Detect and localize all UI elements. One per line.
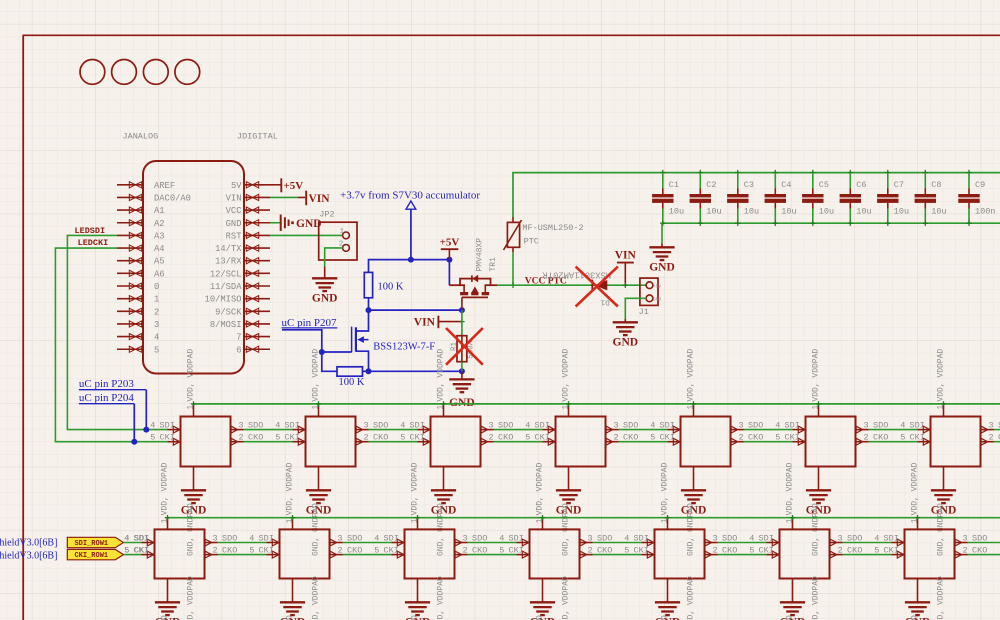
svg-text:9/SCK: 9/SCK <box>215 307 242 317</box>
svg-text:VDD, VDDPAD: VDD, VDDPAD <box>311 349 320 402</box>
svg-text:1: 1 <box>910 518 919 523</box>
svg-text:TR1: TR1 <box>489 257 498 272</box>
cross-out X over D1 <box>576 267 618 307</box>
wire VIN pin to VIN supply <box>270 196 298 198</box>
wire J1 pin2 to ground <box>625 298 646 319</box>
svg-text:PTC: PTC <box>524 237 539 247</box>
IC U16 LED driver row1 col6 <box>775 349 888 467</box>
U1 right pin RST <box>244 234 270 236</box>
svg-text:C1: C1 <box>669 180 679 190</box>
wire VDD bus row2 <box>168 517 1000 519</box>
svg-text:CKI: CKI <box>910 433 925 443</box>
svg-text:5: 5 <box>775 433 780 443</box>
svg-text:5: 5 <box>275 433 280 443</box>
svg-text:DAC0/A0: DAC0/A0 <box>154 193 191 203</box>
IC U23 LED driver row2 col3 <box>374 462 487 578</box>
svg-text:GND, GNDPAD: GND, GNDPAD <box>535 615 544 620</box>
svg-text:BSS123W-7-F: BSS123W-7-F <box>373 342 435 353</box>
wire RST to JP2 pin 1 <box>270 234 343 236</box>
svg-text:SDI: SDI <box>384 534 399 544</box>
wire 5V pin to +5V supply <box>270 184 281 186</box>
svg-text:0: 0 <box>154 282 159 292</box>
junction +5V node <box>446 257 452 263</box>
transistor Q1 BSS123W-7-F <box>352 310 369 371</box>
svg-text:3: 3 <box>239 421 244 431</box>
wire SDO/CKO U25 to U26 <box>718 542 767 544</box>
ground symbol below U11 <box>181 467 207 557</box>
U1 left pin A3 <box>117 234 143 236</box>
svg-text:1: 1 <box>311 405 320 410</box>
junction TR1 gate node <box>459 307 465 313</box>
svg-text:C3: C3 <box>744 180 754 190</box>
ground symbol below U24 <box>530 579 556 620</box>
svg-text:SDI: SDI <box>660 421 675 431</box>
svg-text:1: 1 <box>436 405 445 410</box>
svg-text:VDD, VDDPAD: VDD, VDDPAD <box>186 576 195 620</box>
wire SDO/CKO U15 to U16 <box>744 429 793 431</box>
svg-text:GND, GNDPAD: GND, GNDPAD <box>160 615 169 620</box>
svg-text:4: 4 <box>249 534 254 544</box>
wire row2 outputs to edge <box>968 542 1000 544</box>
svg-text:VDD, VDDPAD: VDD, VDDPAD <box>285 462 294 515</box>
svg-text:VDD, VDDPAD: VDD, VDDPAD <box>811 576 820 620</box>
junction VIN/VCC wire <box>623 283 628 288</box>
capacitor C3 10u <box>727 170 759 226</box>
U1 right pin 6 <box>244 348 270 350</box>
U1 right pin 13/RX <box>244 260 270 262</box>
svg-text:5: 5 <box>150 433 155 443</box>
svg-text:SDI: SDI <box>259 534 274 544</box>
svg-text:2: 2 <box>588 546 593 556</box>
svg-text:AREF: AREF <box>154 181 175 191</box>
svg-text:ShieldV3.0[6B]: ShieldV3.0[6B] <box>0 537 57 548</box>
svg-text:C9: C9 <box>975 180 985 190</box>
svg-text:1: 1 <box>410 518 419 523</box>
svg-text:VDD, VDDPAD: VDD, VDDPAD <box>686 349 695 402</box>
svg-text:5: 5 <box>499 546 504 556</box>
svg-text:4: 4 <box>874 534 879 544</box>
svg-text:GND, GNDPAD: GND, GNDPAD <box>785 615 794 620</box>
wire 100K to R1 bottom node <box>363 370 462 372</box>
wire GND pin to GND symbol <box>270 222 280 224</box>
svg-text:7: 7 <box>236 333 241 343</box>
svg-text:CKI: CKI <box>134 546 149 556</box>
svg-text:LEDCKI: LEDCKI <box>78 238 109 248</box>
svg-text:10u: 10u <box>856 207 871 217</box>
svg-text:1: 1 <box>340 228 345 236</box>
svg-text:2: 2 <box>963 546 968 556</box>
svg-text:CKI: CKI <box>160 433 175 443</box>
mounting hole circle 4 <box>175 60 200 85</box>
svg-text:C5: C5 <box>819 180 829 190</box>
svg-text:SDI: SDI <box>910 421 925 431</box>
wire TR1 drain to R1 <box>461 310 463 336</box>
svg-text:VIN: VIN <box>414 316 436 328</box>
IC U25 LED driver row2 col5 <box>624 462 737 578</box>
svg-text:VIN: VIN <box>615 250 637 262</box>
svg-text:VDD, VDDPAD: VDD, VDDPAD <box>436 349 445 402</box>
svg-text:1: 1 <box>660 518 669 523</box>
svg-text:GND: GND <box>653 296 661 302</box>
svg-text:uC pin P203: uC pin P203 <box>79 378 135 390</box>
svg-text:5: 5 <box>124 546 129 556</box>
wire C1 to ground <box>661 223 663 243</box>
svg-text:5: 5 <box>249 546 254 556</box>
svg-text:A2: A2 <box>154 219 165 229</box>
svg-text:RST: RST <box>226 231 242 241</box>
svg-text:JANALOG: JANALOG <box>123 132 159 142</box>
svg-text:SDI: SDI <box>160 421 175 431</box>
svg-text:GND: GND <box>296 218 322 230</box>
svg-text:3: 3 <box>739 421 744 431</box>
flag SDI_ROW1 <box>67 537 123 547</box>
svg-text:SDI: SDI <box>785 421 800 431</box>
ground symbol below U21 <box>155 579 181 620</box>
capacitor C5 10u <box>802 170 834 226</box>
svg-text:CKI: CKI <box>535 433 550 443</box>
svg-text:VDD, VDDPAD: VDD, VDDPAD <box>686 576 695 620</box>
svg-text:VIN: VIN <box>226 193 242 203</box>
junction VIN/R1 <box>459 319 464 324</box>
svg-text:R1: R1 <box>451 341 459 351</box>
svg-text:3: 3 <box>364 421 369 431</box>
svg-text:CKI: CKI <box>384 546 399 556</box>
svg-text:5: 5 <box>525 433 530 443</box>
svg-text:GND: GND <box>226 219 242 229</box>
svg-text:5: 5 <box>374 546 379 556</box>
U1 right pin 11/SDA <box>244 285 270 287</box>
svg-text:MF-USML250-2: MF-USML250-2 <box>522 223 583 233</box>
svg-text:11/SDA: 11/SDA <box>210 282 242 292</box>
svg-text:100 K: 100 K <box>378 281 404 292</box>
svg-text:GND, GNDPAD: GND, GNDPAD <box>285 615 294 620</box>
svg-text:1: 1 <box>154 295 159 305</box>
svg-text:3: 3 <box>838 534 843 544</box>
diode D1 MSX3011AM20TR (crossed out) <box>591 280 593 291</box>
svg-text:2: 2 <box>338 546 343 556</box>
svg-text:SDI: SDI <box>134 534 149 544</box>
U1 right pin 7 <box>244 336 270 338</box>
svg-text:3: 3 <box>614 421 619 431</box>
svg-text:10/MISO: 10/MISO <box>205 295 242 305</box>
svg-text:5: 5 <box>749 546 754 556</box>
capacitor C4 10u <box>765 170 797 226</box>
svg-text:GND: GND <box>613 337 639 349</box>
wire SDO/CKO U23 to U24 <box>468 542 517 544</box>
ground symbol below JP2 <box>312 278 337 291</box>
U1 left pin A6 <box>117 272 143 274</box>
svg-text:3: 3 <box>489 421 494 431</box>
junction P204/CKI <box>131 439 137 445</box>
IC U17 LED driver row1 col7 <box>900 349 1000 467</box>
svg-text:VDD, VDDPAD: VDD, VDDPAD <box>160 462 169 515</box>
svg-text:CKI: CKI <box>785 433 800 443</box>
IC U21 LED driver row2 col1 <box>124 462 237 578</box>
svg-text:10u: 10u <box>931 207 946 217</box>
capacitor C8 10u <box>915 170 947 226</box>
svg-text:C7: C7 <box>894 180 904 190</box>
svg-text:5: 5 <box>154 345 159 355</box>
svg-text:6: 6 <box>236 345 241 355</box>
U1 right pin 12/SCL <box>244 272 270 274</box>
ground symbol below R1 <box>449 379 474 392</box>
wire SDO/CKO U16 to U17 <box>869 429 918 431</box>
ground symbol below U12 <box>306 467 332 557</box>
svg-text:SDI: SDI <box>509 534 524 544</box>
IC U22 LED driver row2 col2 <box>249 462 362 578</box>
wire SDO/CKO U21 to U22 <box>218 542 267 544</box>
svg-text:VDD, VDDPAD: VDD, VDDPAD <box>561 349 570 402</box>
capacitor C1 10u <box>652 170 684 226</box>
svg-text:CKI: CKI <box>259 546 274 556</box>
U1 left pin A5 <box>117 260 143 262</box>
junction P207 gate node <box>319 349 325 355</box>
ground symbol below U15 <box>681 467 707 557</box>
svg-text:2: 2 <box>989 433 994 443</box>
wire SDO/CKO U12 to U13 <box>369 429 418 431</box>
svg-text:13/RX: 13/RX <box>215 257 242 267</box>
U1 right pin 5V <box>244 184 270 186</box>
U1 left pin AREF <box>117 184 143 186</box>
svg-text:4: 4 <box>749 534 754 544</box>
svg-text:CKI: CKI <box>410 433 425 443</box>
supply +3.7v triangle symbol <box>406 201 416 209</box>
U1 right pin 8/MOSI <box>244 323 270 325</box>
svg-text:5: 5 <box>650 433 655 443</box>
svg-text:VDD, VDDPAD: VDD, VDDPAD <box>561 576 570 620</box>
svg-text:VDD, VDDPAD: VDD, VDDPAD <box>910 462 919 515</box>
supply +5V symbol (right of U1) <box>280 178 282 192</box>
U1 left pin 2 <box>117 310 143 312</box>
ground symbol below J1 <box>613 322 638 335</box>
svg-text:1: 1 <box>186 405 195 410</box>
svg-text:4: 4 <box>900 421 905 431</box>
svg-text:CKI: CKI <box>884 546 899 556</box>
svg-text:100 K: 100 K <box>339 377 365 388</box>
U1 left pin 1 <box>117 298 143 300</box>
capacitor C9 100n <box>958 170 995 226</box>
svg-text:3: 3 <box>713 534 718 544</box>
svg-text:+5V: +5V <box>653 283 661 289</box>
svg-text:14/TX: 14/TX <box>215 244 242 254</box>
svg-text:3: 3 <box>213 534 218 544</box>
svg-text:1: 1 <box>285 518 294 523</box>
IC U12 LED driver row1 col2 <box>275 349 388 467</box>
capacitor C7 10u <box>877 170 909 226</box>
U1 right pin 9/SCK <box>244 310 270 312</box>
svg-text:A4: A4 <box>154 244 165 254</box>
wire top bus from PTC <box>513 173 1000 217</box>
svg-text:1: 1 <box>936 405 945 410</box>
svg-text:CKI: CKI <box>660 433 675 443</box>
cross-out X over R1 <box>446 328 483 365</box>
thermistor TR2 MF-USML250-2 PTC <box>512 217 514 222</box>
wire LEDCKI from A4 down to row1 CKI <box>55 248 167 442</box>
svg-text:3: 3 <box>588 534 593 544</box>
svg-text:100n: 100n <box>975 207 995 217</box>
IC U15 LED driver row1 col5 <box>650 349 763 467</box>
svg-text:VDD, VDDPAD: VDD, VDDPAD <box>311 576 320 620</box>
svg-text:VDD, VDDPAD: VDD, VDDPAD <box>436 576 445 620</box>
mounting hole circle 3 <box>143 60 168 85</box>
svg-text:CKI_ROW1: CKI_ROW1 <box>74 552 108 560</box>
svg-text:1: 1 <box>785 518 794 523</box>
svg-text:10u: 10u <box>744 207 759 217</box>
mounting hole circle 2 <box>112 60 137 85</box>
wire SDO/CKO U24 to U25 <box>593 542 642 544</box>
frame border left <box>22 35 24 620</box>
svg-text:1: 1 <box>686 405 695 410</box>
svg-text:2: 2 <box>213 546 218 556</box>
svg-text:A5: A5 <box>154 257 165 267</box>
wire SDO/CKO U26 to U27 <box>843 542 892 544</box>
svg-text:SDI: SDI <box>535 421 550 431</box>
svg-text:8/MOSI: 8/MOSI <box>210 320 242 330</box>
svg-text:GND: GND <box>649 262 675 274</box>
ground symbol below U17 <box>931 467 957 557</box>
svg-text:GND: GND <box>312 293 338 305</box>
IC U1 Arduino socket body <box>143 161 244 374</box>
wire P207 node down to 100K <box>322 352 337 371</box>
wire gate node to TR1 gate <box>369 309 462 311</box>
IC U14 LED driver row1 col4 <box>525 349 638 467</box>
wire node to +5V and resistor <box>369 260 450 286</box>
svg-text:+5V: +5V <box>284 180 304 192</box>
wire PTC to VCC PTC net <box>512 252 514 285</box>
ground symbol below U14 <box>556 467 582 557</box>
svg-text:10u: 10u <box>894 207 909 217</box>
svg-text:ShieldV3.0[6B]: ShieldV3.0[6B] <box>0 550 57 561</box>
svg-text:4: 4 <box>624 534 629 544</box>
svg-text:2: 2 <box>713 546 718 556</box>
svg-text:3: 3 <box>864 421 869 431</box>
IC U11 LED driver row1 col1 <box>150 349 263 467</box>
svg-text:4: 4 <box>275 421 280 431</box>
svg-text:PMV48XP: PMV48XP <box>476 238 485 272</box>
svg-text:C4: C4 <box>781 180 791 190</box>
capacitor C2 10u <box>690 170 722 226</box>
U1 left pin 5 <box>117 348 143 350</box>
svg-text:5: 5 <box>874 546 879 556</box>
resistor R3 100K horizontal <box>337 367 363 376</box>
svg-text:3: 3 <box>463 534 468 544</box>
U1 left pin A2 <box>117 222 143 224</box>
wire flag CKI_ROW1 to U21 <box>123 554 141 556</box>
ground symbol below U26 <box>780 579 806 620</box>
svg-text:1: 1 <box>535 518 544 523</box>
wire VCC PTC horizontal <box>497 284 646 286</box>
svg-text:VDD, VDDPAD: VDD, VDDPAD <box>535 462 544 515</box>
ground symbol below U13 <box>431 467 457 557</box>
svg-text:3: 3 <box>989 421 994 431</box>
svg-text:2: 2 <box>614 433 619 443</box>
svg-text:SDI: SDI <box>285 421 300 431</box>
svg-text:SDI: SDI <box>634 534 649 544</box>
wire SDO/CKO U14 to U15 <box>619 429 668 431</box>
frame border top <box>23 34 1000 36</box>
wire JP2 pin 2 to ground <box>325 248 343 267</box>
resistor R2 100K vertical <box>364 272 372 297</box>
svg-text:CKI: CKI <box>634 546 649 556</box>
svg-text:SDI_ROW1: SDI_ROW1 <box>74 540 108 548</box>
wire resistor bottom to gate node <box>368 298 370 310</box>
svg-text:4: 4 <box>374 534 379 544</box>
svg-text:5: 5 <box>900 433 905 443</box>
U1 right pin 14/TX <box>244 247 270 249</box>
svg-text:4: 4 <box>124 534 129 544</box>
IC U26 LED driver row2 col6 <box>749 462 862 578</box>
U1 right pin VCC <box>244 209 270 211</box>
U1 left pin 0 <box>117 285 143 287</box>
wire LEDSDI from A3 down to row1 SDI <box>67 235 167 429</box>
IC U13 LED driver row1 col3 <box>400 349 513 467</box>
svg-text:VDD, VDDPAD: VDD, VDDPAD <box>936 576 945 620</box>
svg-text:VCC: VCC <box>226 206 242 216</box>
ground symbol below C1 <box>649 247 674 260</box>
svg-text:uC pin P204: uC pin P204 <box>79 392 135 404</box>
ground GND symbol (rotated, right of U1) <box>281 215 289 231</box>
wire +3.7v down to node <box>410 209 412 259</box>
U1 left pin A4 <box>117 247 143 249</box>
svg-text:JP2: JP2 <box>319 209 334 219</box>
U1 right pin GND <box>244 222 270 224</box>
svg-text:5: 5 <box>400 433 405 443</box>
svg-text:2: 2 <box>739 433 744 443</box>
IC U24 LED driver row2 col4 <box>499 462 612 578</box>
wire VDD bus row1 <box>194 403 1000 405</box>
U1 left pin 4 <box>117 336 143 338</box>
svg-text:CKI: CKI <box>759 546 774 556</box>
svg-text:2: 2 <box>364 433 369 443</box>
U1 left pin 3 <box>117 323 143 325</box>
svg-text:VIN: VIN <box>309 193 331 205</box>
svg-text:10u: 10u <box>706 207 721 217</box>
capacitor C6 10u <box>840 170 872 226</box>
svg-text:J1: J1 <box>639 307 649 317</box>
supply VIN symbol (right of U1) <box>305 191 307 206</box>
svg-text:SDI: SDI <box>410 421 425 431</box>
svg-text:+3.7v from S7V30 accumulator: +3.7v from S7V30 accumulator <box>340 189 480 201</box>
svg-text:3: 3 <box>963 534 968 544</box>
svg-text:3: 3 <box>154 320 159 330</box>
svg-text:VDD, VDDPAD: VDD, VDDPAD <box>785 462 794 515</box>
svg-text:GND, GNDPAD: GND, GNDPAD <box>660 615 669 620</box>
mounting hole circle 1 <box>80 60 105 85</box>
svg-text:10u: 10u <box>819 207 834 217</box>
wire SDO/CKO U13 to U14 <box>494 429 543 431</box>
ground symbol below U27 <box>905 579 931 620</box>
svg-text:1: 1 <box>561 405 570 410</box>
svg-text:VDD, VDDPAD: VDD, VDDPAD <box>410 462 419 515</box>
svg-text:4: 4 <box>400 421 405 431</box>
fuse R1 500A (crossed out) <box>457 336 467 362</box>
svg-text:5: 5 <box>624 546 629 556</box>
ground symbol below U22 <box>280 579 306 620</box>
wire SDO/CKO U22 to U23 <box>343 542 392 544</box>
svg-text:12/SCL: 12/SCL <box>210 269 242 279</box>
svg-text:VDD, VDDPAD: VDD, VDDPAD <box>660 462 669 515</box>
svg-text:GND, GNDPAD: GND, GNDPAD <box>410 615 419 620</box>
U1 right pin VIN <box>244 196 270 198</box>
svg-text:4: 4 <box>775 421 780 431</box>
wire SDO/CKO U11 to U12 <box>244 429 293 431</box>
svg-text:+5V: +5V <box>440 237 460 249</box>
ground symbol below U25 <box>655 579 681 620</box>
svg-text:4: 4 <box>154 333 159 343</box>
svg-text:4: 4 <box>525 421 530 431</box>
svg-text:CKI: CKI <box>285 433 300 443</box>
svg-text:GND, GNDPAD: GND, GNDPAD <box>910 615 919 620</box>
